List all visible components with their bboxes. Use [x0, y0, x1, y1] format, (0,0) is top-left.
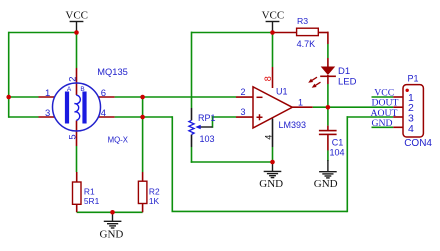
svg-text:D1: D1 [338, 66, 350, 77]
svg-text:3: 3 [241, 107, 246, 117]
svg-text:1: 1 [45, 88, 50, 99]
svg-text:RP1: RP1 [198, 113, 216, 123]
svg-text:U1: U1 [276, 86, 288, 96]
svg-text:DOUT: DOUT [372, 97, 399, 108]
svg-text:LM393: LM393 [279, 120, 307, 130]
svg-text:4: 4 [263, 135, 273, 140]
svg-text:5: 5 [68, 134, 79, 139]
svg-text:MQ135: MQ135 [97, 67, 128, 77]
svg-text:VCC: VCC [262, 10, 285, 22]
svg-text:R2: R2 [149, 187, 160, 197]
svg-text:2: 2 [241, 87, 246, 97]
svg-text:VCC: VCC [65, 10, 88, 22]
svg-text:A: A [67, 86, 72, 93]
svg-text:3: 3 [45, 108, 50, 119]
svg-text:GND: GND [314, 178, 338, 190]
svg-text:4: 4 [101, 108, 106, 119]
svg-text:C1: C1 [332, 138, 344, 148]
svg-text:CON4: CON4 [404, 138, 432, 149]
svg-text:6: 6 [101, 88, 106, 99]
svg-text:B: B [80, 86, 84, 93]
svg-text:P1: P1 [408, 73, 419, 83]
svg-text:104: 104 [330, 148, 345, 158]
svg-text:103: 103 [200, 134, 215, 144]
svg-text:MQ-X: MQ-X [108, 135, 129, 144]
svg-text:GND: GND [259, 178, 283, 190]
svg-text:1: 1 [298, 97, 303, 107]
svg-text:LED: LED [338, 77, 357, 88]
svg-text:GND: GND [100, 228, 124, 240]
svg-text:GND: GND [372, 118, 393, 129]
svg-text:4: 4 [408, 123, 414, 135]
svg-text:2: 2 [68, 77, 79, 82]
svg-text:1K: 1K [149, 196, 160, 206]
svg-text:8: 8 [263, 76, 273, 81]
svg-text:5R1: 5R1 [84, 196, 100, 206]
svg-text:4.7K: 4.7K [297, 39, 316, 49]
svg-text:R1: R1 [84, 187, 95, 197]
svg-text:R3: R3 [297, 16, 308, 26]
